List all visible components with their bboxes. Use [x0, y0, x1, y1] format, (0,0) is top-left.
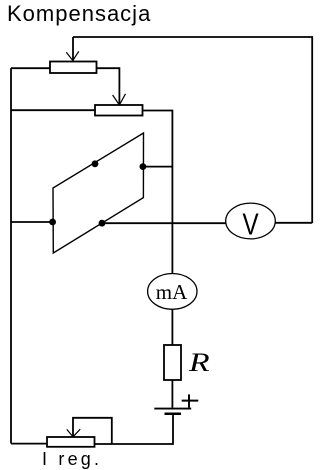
svg-text:Kompensacja: Kompensacja — [7, 1, 151, 26]
node dot on plate left edge — [49, 219, 56, 226]
wire battery to bottom rail — [95, 415, 174, 444]
wire left rail to P2 left — [11, 109, 95, 111]
resistor R body — [164, 345, 181, 380]
wire milliammeter to resistor R — [171, 309, 173, 345]
milliammeter mA — [148, 274, 197, 310]
wire P1 right to P2 wiper — [97, 68, 126, 105]
potentiometer P3 wiper arrow — [67, 418, 112, 444]
svg-text:mA: mA — [156, 280, 188, 304]
wire plate right node to main vertical — [143, 166, 173, 168]
wire P2 right to main vertical, down to milliammeter — [143, 111, 173, 274]
wire bottom rail left — [11, 443, 47, 445]
label + (battery polarity) — [182, 394, 199, 407]
label R — [188, 348, 210, 377]
svg-text:R: R — [188, 348, 210, 377]
label I reg. — [42, 449, 102, 469]
potentiometer P1 body — [50, 62, 97, 74]
title Kompensacja — [7, 1, 151, 26]
slidewire plate (parallelogram) — [53, 133, 144, 253]
potentiometer P2 body — [95, 105, 143, 116]
wire plate bottom node to voltmeter — [102, 222, 226, 224]
potentiometer P1 wiper arrow — [66, 37, 79, 61]
wire left rail — [10, 68, 12, 443]
wire left rail to plate left node — [11, 221, 53, 223]
battery B1 — [154, 409, 191, 414]
wire resistor R to battery — [171, 380, 173, 408]
voltmeter V — [226, 203, 276, 241]
potentiometer P3 body — [47, 437, 95, 447]
node dot on plate bottom edge — [99, 220, 106, 227]
wire top rail to right rail — [73, 37, 312, 223]
svg-text:I reg.: I reg. — [42, 449, 102, 469]
svg-text:V: V — [242, 207, 259, 242]
wire P1 left to left rail — [11, 67, 50, 69]
node dot on plate top edge — [92, 160, 99, 167]
node dot on plate right edge — [140, 163, 147, 170]
wire voltmeter to right rail — [275, 222, 312, 224]
